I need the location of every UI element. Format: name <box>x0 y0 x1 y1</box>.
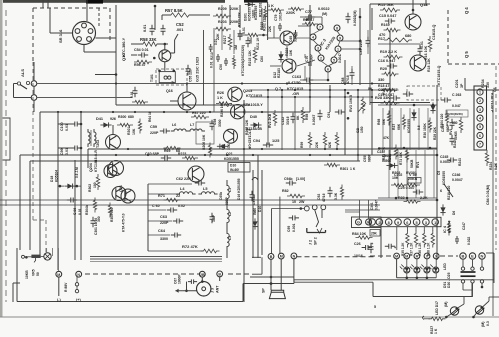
connector pin bat E <box>469 253 475 259</box>
svg-text:0.0022(M): 0.0022(M) <box>353 11 357 26</box>
svg-text:E: E <box>471 254 474 259</box>
svg-text:KTA 475-Y.0: KTA 475-Y.0 <box>122 213 126 232</box>
wire Q11 base feed <box>273 26 275 38</box>
wire seg <box>148 183 192 185</box>
wire top supply bus bar <box>3 0 225 3</box>
shield box T1 top (dashed) <box>33 7 110 9</box>
wire right <box>84 51 116 53</box>
wire x493 down right edge <box>492 90 494 316</box>
transistor Q301 <box>104 165 117 178</box>
svg-text:0.0047: 0.0047 <box>375 200 379 210</box>
svg-text:D40: D40 <box>250 115 257 119</box>
wire left frame x17 <box>16 248 18 302</box>
svg-text:D20 - D25: D20 - D25 <box>447 272 451 288</box>
resistor R302 <box>96 174 99 190</box>
svg-text:0.01: 0.01 <box>78 208 82 215</box>
svg-text:LED: LED <box>443 263 447 270</box>
wire x174 up <box>174 40 176 53</box>
resistor R38 1.2K <box>431 231 434 248</box>
svg-text:KD5104: KD5104 <box>55 170 59 182</box>
resistor R300 <box>117 123 133 126</box>
svg-text:R301: R301 <box>340 167 348 171</box>
svg-text:C79: C79 <box>274 15 278 21</box>
IC3 pin 7 <box>317 24 323 30</box>
wire to speaker <box>270 259 272 290</box>
wire rcol top bus <box>378 104 437 106</box>
svg-text:C62 22P: C62 22P <box>176 177 191 181</box>
capacitor C62 <box>195 181 205 186</box>
wire drop c <box>58 248 60 271</box>
svg-text:M: M <box>280 255 283 259</box>
IC3 pin 2 <box>318 55 324 61</box>
wire drop b <box>52 248 54 256</box>
svg-text:0.47/50: 0.47/50 <box>288 81 301 85</box>
switch S right <box>444 184 453 197</box>
svg-text:D41: D41 <box>96 117 103 121</box>
svg-text:R30 150K: R30 150K <box>423 123 427 138</box>
svg-text:3300: 3300 <box>160 237 168 241</box>
wire main vertical x116 <box>115 5 117 105</box>
transistor Q15 <box>159 50 171 62</box>
svg-text:M: M <box>405 255 408 259</box>
connector lug <box>423 316 425 320</box>
diode D18 <box>67 184 72 189</box>
svg-text:C52: C52 <box>176 22 184 27</box>
connector pin G <box>356 219 362 225</box>
svg-text:R301: R301 <box>127 127 131 135</box>
capacitor C26 <box>362 245 372 250</box>
svg-text:KTA1015-Y: KTA1015-Y <box>243 103 263 107</box>
capacitor 3.5P <box>210 213 215 223</box>
capacitor C55 <box>186 65 191 75</box>
svg-text:R58: R58 <box>305 114 309 120</box>
svg-text:C56: C56 <box>219 64 223 70</box>
wire x295 <box>294 97 296 150</box>
svg-text:C301 10/16: C301 10/16 <box>94 218 98 235</box>
svg-text:3: 3 <box>479 108 481 112</box>
capacitor C58 <box>210 120 215 130</box>
IC4 pin 6 <box>404 219 411 226</box>
svg-text:0.0047: 0.0047 <box>452 178 463 182</box>
resistor R58 <box>140 42 160 46</box>
wire c70 up <box>304 54 306 58</box>
potentiometer RV2 <box>273 110 276 126</box>
IC3 pin 6 <box>325 66 331 72</box>
wire bus y105 <box>116 104 250 106</box>
capacitor C301b <box>250 191 255 201</box>
svg-text:C1815-Q: C1815-Q <box>432 25 436 40</box>
svg-text:1M: 1M <box>234 45 238 50</box>
junction contact 2 <box>31 95 37 101</box>
wire bat pin down <box>462 260 464 267</box>
svg-text:R 88V: R 88V <box>64 282 68 292</box>
wire x372b <box>371 90 373 155</box>
wire left stub <box>12 283 14 302</box>
wire Q15 collector up <box>164 44 166 50</box>
capacitor C53 <box>150 25 155 35</box>
wire stub x426 <box>425 0 427 6</box>
svg-text:N: N <box>481 254 484 259</box>
wire IC3 pin9 right <box>340 40 360 42</box>
svg-text:10/16: 10/16 <box>279 12 283 21</box>
svg-text:KD51555: KD51555 <box>224 157 239 161</box>
resistor R19 <box>384 55 403 59</box>
speaker SP <box>269 290 285 298</box>
wire c88 up <box>351 66 353 70</box>
wire drop a <box>46 248 48 253</box>
svg-text:C88: C88 <box>341 78 345 84</box>
resistor R303 <box>391 183 407 186</box>
wire x345 seg <box>344 60 346 85</box>
svg-text:KD51555: KD51555 <box>442 171 446 185</box>
wire bus y277 seg <box>250 276 294 278</box>
svg-text:C301: C301 <box>370 202 374 210</box>
connector pin bat B <box>460 253 466 259</box>
svg-text:SR 316: SR 316 <box>58 29 63 43</box>
wire led pin down <box>396 259 398 278</box>
wire vertical through contacts <box>33 62 35 81</box>
connector pin <box>87 37 92 42</box>
resistor R30 <box>428 118 431 133</box>
pot RV3 wiper <box>358 103 366 112</box>
svg-text:SP: SP <box>262 288 266 293</box>
resistor R203 <box>213 27 231 31</box>
diode D5b <box>430 105 435 110</box>
svg-text:C63: C63 <box>160 215 167 219</box>
transistor Q205 <box>109 161 124 176</box>
IC2 pin 1 <box>477 89 483 95</box>
wire bus y200 <box>0 199 437 201</box>
wire x262 <box>261 170 263 255</box>
svg-text:8: 8 <box>336 26 338 30</box>
wire left margin dashed <box>5 10 7 302</box>
wire x258 <box>257 155 259 258</box>
svg-text:C77: C77 <box>305 10 312 14</box>
transformer T202 <box>88 129 90 147</box>
wire pin drop x397 <box>396 227 398 250</box>
wire stub <box>42 0 44 8</box>
potentiometer VR5 body <box>31 255 40 258</box>
capacitor C67 <box>188 279 197 284</box>
svg-text:C 263: C 263 <box>452 93 461 97</box>
wire rcol mid bus <box>378 147 437 149</box>
capacitor C301 <box>91 217 96 227</box>
resistor R16 <box>428 36 432 52</box>
IC2 pin 6 <box>477 132 483 138</box>
svg-text:(M): (M) <box>444 301 448 307</box>
transistor Q21 <box>224 129 238 143</box>
transistor Q11 <box>280 31 294 45</box>
capacitor C244 <box>450 119 455 129</box>
connector SP socket body <box>73 22 96 45</box>
shield box left (dashed) <box>32 8 34 62</box>
IC3 pin 1 <box>335 46 341 52</box>
svg-text:Q 5: Q 5 <box>464 51 469 58</box>
resistor R18b <box>382 88 399 91</box>
wire box top bus <box>345 209 380 211</box>
connector pin B2 <box>268 254 274 260</box>
inductor L6 <box>171 129 189 131</box>
wire x88 down <box>87 149 89 168</box>
wire x330 <box>329 85 331 112</box>
switch ALS <box>17 82 20 85</box>
wire bus y282 <box>294 281 373 283</box>
wire switch lead <box>14 83 18 85</box>
svg-text:C55!: C55! <box>363 155 367 162</box>
svg-text:0.001: 0.001 <box>292 223 296 232</box>
svg-text:0.3: 0.3 <box>486 321 490 326</box>
resistor R69 <box>164 146 181 149</box>
wire to jack tip <box>272 208 305 210</box>
inductor L3 <box>227 230 229 249</box>
svg-text:IN60: IN60 <box>253 208 257 215</box>
svg-text:0.01: 0.01 <box>143 25 147 32</box>
transformer T101 core <box>159 72 175 83</box>
IC2 pin 4 <box>477 115 483 121</box>
svg-text:2B: 2B <box>200 273 205 277</box>
jack J2 phone sleeve <box>307 228 326 233</box>
svg-text:B: B <box>270 255 273 259</box>
wire ic4 pin drop <box>406 227 408 231</box>
svg-text:0.01: 0.01 <box>210 61 214 68</box>
wire bus y205 <box>0 204 380 206</box>
svg-text:330: 330 <box>378 78 384 82</box>
diode D40 <box>253 122 258 127</box>
wire bus y112 <box>40 111 310 113</box>
capacitor C64 <box>171 233 181 238</box>
svg-text:220P: 220P <box>150 131 159 135</box>
svg-text:33/16: 33/16 <box>286 116 290 125</box>
svg-text:R37 1.2K: R37 1.2K <box>410 242 414 256</box>
wire top bus segment right <box>244 0 268 3</box>
wire IC3 pin1 right <box>341 48 360 50</box>
connector pin <box>77 37 82 42</box>
wire to D26 <box>474 313 477 317</box>
resistor R206b <box>208 143 211 158</box>
svg-text:R27: R27 <box>392 124 396 130</box>
resistor R82 <box>287 194 305 198</box>
wire frame corner x243 <box>242 284 244 302</box>
capacitor C52 <box>161 25 166 35</box>
resistor small 1 <box>233 55 236 69</box>
inductor L1 <box>227 182 229 201</box>
wire dashed y256d <box>440 255 458 257</box>
svg-text:C65: C65 <box>289 36 293 42</box>
wire Q11-Q12 <box>286 46 288 58</box>
wire bus y259 <box>90 258 222 260</box>
resistor R28 <box>381 101 400 105</box>
IC3 pin 9 <box>337 35 343 41</box>
capacitor C91b <box>335 110 345 115</box>
LED D20 <box>404 267 410 273</box>
svg-text:KTC-380-Y: KTC-380-Y <box>122 37 126 57</box>
svg-text:L5: L5 <box>203 187 207 191</box>
svg-text:8: 8 <box>388 221 390 225</box>
resistor R301b <box>324 163 340 166</box>
LED D25 <box>433 267 439 273</box>
svg-text:M: M <box>395 255 398 259</box>
IC3 pin 4 <box>310 34 316 40</box>
IC2 pin 2 <box>477 98 483 104</box>
wire rcol vertical <box>409 108 411 150</box>
connector pin M <box>394 253 400 259</box>
capacitor C91c <box>450 135 455 145</box>
svg-text:R224: R224 <box>489 162 493 170</box>
wire R227 left lead <box>424 318 430 320</box>
svg-text:L3: L3 <box>228 236 232 240</box>
wire step down x373 <box>372 282 374 296</box>
wire c163 to pin6 <box>313 79 328 81</box>
resistor R223 <box>182 156 198 159</box>
wire rcol vertical <box>400 108 402 150</box>
battery BT plates <box>461 271 476 273</box>
LED D17 <box>450 307 458 315</box>
IC4 pin 9 <box>395 219 402 226</box>
svg-text:R72 47K: R72 47K <box>182 244 198 249</box>
svg-text:(M): (M) <box>322 12 327 16</box>
wire bat down <box>462 283 464 290</box>
svg-text:R169: R169 <box>381 23 390 27</box>
wire x358 <box>357 90 359 161</box>
wire x271 pin drop <box>271 209 273 254</box>
svg-text:5: 5 <box>479 125 481 129</box>
svg-text:C70: C70 <box>305 56 309 62</box>
svg-text:50KB: 50KB <box>410 159 414 168</box>
wire x345b <box>344 90 346 155</box>
wire dashed y256c <box>370 255 392 257</box>
svg-text:R82: R82 <box>282 189 289 193</box>
transistor Q12 <box>282 59 296 73</box>
svg-text:1 K: 1 K <box>350 167 356 171</box>
wire Q12 to IC3 <box>297 60 315 66</box>
svg-text:J 2: J 2 <box>309 240 313 245</box>
svg-text:R217: R217 <box>223 35 227 44</box>
capacitor near IC4 <box>369 243 374 253</box>
wire x222 <box>221 5 223 50</box>
svg-text:50KB: 50KB <box>454 131 458 140</box>
svg-text:2: 2 <box>378 221 380 225</box>
wire Q15 emitter down <box>164 62 166 71</box>
svg-text:D6: D6 <box>452 211 456 215</box>
resistor R35 1.2K <box>406 231 409 248</box>
wire x40 down <box>39 112 41 255</box>
resistor R224 <box>485 150 488 166</box>
svg-text:3: 3 <box>317 46 319 50</box>
svg-text:R234: R234 <box>481 79 485 88</box>
svg-text:0.0047: 0.0047 <box>312 115 316 125</box>
svg-text:T101: T101 <box>150 74 154 82</box>
wire D17 up <box>458 304 465 308</box>
svg-text:R17: R17 <box>378 37 385 41</box>
svg-text:Q 7: Q 7 <box>226 103 232 107</box>
wire dashed right box <box>447 10 449 64</box>
svg-text:8K: 8K <box>296 115 300 120</box>
connector pin <box>82 23 87 28</box>
svg-text:-GR: -GR <box>292 92 299 96</box>
svg-text:J 3: J 3 <box>211 288 215 293</box>
potentiometer RV1 <box>459 117 462 133</box>
svg-text:1: 1 <box>479 90 481 94</box>
svg-text:LED D17: LED D17 <box>435 301 439 315</box>
svg-text:47/16: 47/16 <box>322 193 326 202</box>
svg-text:1/50: 1/50 <box>360 126 364 133</box>
resistor 3.3K <box>340 185 343 200</box>
svg-text:KTC3203(2SC2320): KTC3203(2SC2320) <box>241 45 245 76</box>
svg-text:1: 1 <box>337 47 339 51</box>
svg-text:5: 5 <box>416 221 418 225</box>
resistor R37 1.2K <box>423 231 426 248</box>
wire rcol vertical <box>418 108 420 150</box>
svg-text:R67 220: R67 220 <box>192 111 206 115</box>
svg-text:2: 2 <box>320 56 322 60</box>
wire VR5 to S2 <box>41 255 44 257</box>
wire y274 stub <box>252 273 262 275</box>
svg-text:R56 47: R56 47 <box>134 63 146 67</box>
wire bus y283 left <box>243 283 294 285</box>
svg-text:KD51555: KD51555 <box>407 119 411 133</box>
wire x230 top <box>229 5 231 25</box>
wire bottom frame y302 <box>17 301 243 303</box>
wire dashed y258 <box>297 256 377 258</box>
svg-text:680P: 680P <box>446 123 450 132</box>
wire pin K down <box>293 259 295 282</box>
svg-text:R210 220: R210 220 <box>447 186 451 200</box>
wire pin to jack <box>201 277 203 282</box>
transformer T101 shield (dashed) <box>156 69 187 85</box>
wire drop to LED D17 <box>463 297 465 305</box>
wire x310b <box>309 25 311 112</box>
svg-text:R305 560: R305 560 <box>110 208 114 222</box>
wire antenna to socket <box>86 0 88 21</box>
wire c70 dn <box>304 66 306 80</box>
diode D201 <box>248 2 252 6</box>
resistor R15 <box>380 8 400 12</box>
svg-text:0.0022: 0.0022 <box>318 7 330 11</box>
battery terminal circles top <box>461 267 464 270</box>
svg-text:C 96: C 96 <box>73 208 77 215</box>
arrow connector <box>252 178 258 181</box>
transistor Q204 <box>106 135 121 150</box>
svg-text:3: 3 <box>425 221 427 225</box>
wire R15 block bottom border <box>370 102 430 104</box>
diode D6 <box>440 207 445 212</box>
wire pin N down <box>76 277 78 283</box>
svg-text:0.01: 0.01 <box>65 148 69 155</box>
IC2 pin 5 <box>477 124 483 130</box>
svg-text:R29 22K: R29 22K <box>433 126 437 140</box>
wire bus y161 <box>30 160 360 162</box>
capacitor C25 <box>413 190 423 195</box>
svg-text:D240(D246): D240(D246) <box>447 112 463 116</box>
svg-text:RV1: RV1 <box>416 161 420 168</box>
wire bus y97 <box>37 97 132 99</box>
shield box Q14 (dashed) <box>407 86 441 100</box>
wire ic4 pin drop <box>432 227 434 231</box>
svg-text:0.01: 0.01 <box>65 124 69 131</box>
wire x234 <box>233 30 235 54</box>
svg-text:22K: 22K <box>315 141 319 148</box>
svg-text:KTC1815-Q: KTC1815-Q <box>437 65 441 85</box>
svg-text:C99: C99 <box>60 148 64 155</box>
svg-text:C16 0.047: C16 0.047 <box>378 59 396 63</box>
capacitor C87 <box>366 37 371 47</box>
wire gnd bus <box>175 290 196 292</box>
wire bus y155 <box>20 154 437 156</box>
wire ic3 interconnect <box>313 30 320 34</box>
svg-text:R15 56K: R15 56K <box>378 2 394 7</box>
resistor R242b <box>264 6 267 20</box>
capacitor C163 <box>303 78 313 83</box>
